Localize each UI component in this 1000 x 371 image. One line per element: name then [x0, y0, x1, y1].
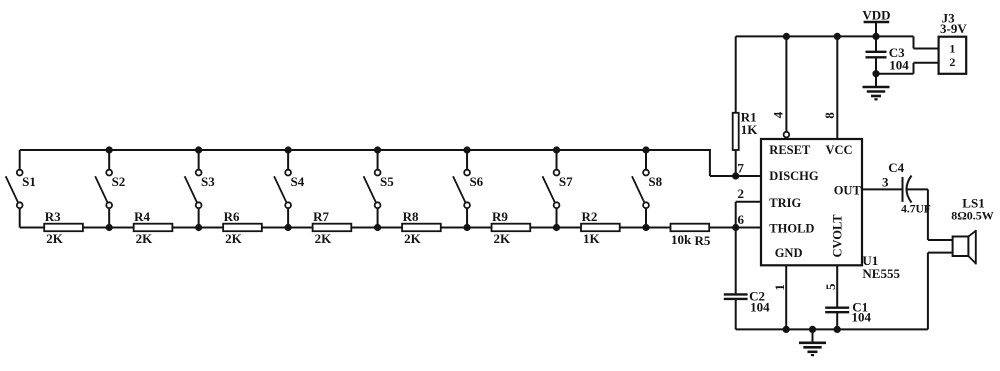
- svg-text:R2: R2: [582, 209, 598, 224]
- svg-text:RESET: RESET: [769, 143, 811, 157]
- svg-text:1K: 1K: [741, 122, 759, 137]
- svg-text:GND: GND: [775, 246, 803, 260]
- svg-text:5: 5: [823, 283, 838, 290]
- svg-text:THOLD: THOLD: [769, 222, 814, 236]
- svg-text:TRIG: TRIG: [769, 196, 801, 210]
- svg-text:R3: R3: [45, 209, 61, 224]
- svg-text:OUT: OUT: [834, 184, 862, 198]
- svg-text:S7: S7: [559, 174, 573, 189]
- svg-text:DISCHG: DISCHG: [769, 169, 819, 183]
- svg-text:104: 104: [750, 299, 770, 314]
- svg-text:2K: 2K: [46, 231, 64, 246]
- svg-text:3-9V: 3-9V: [940, 21, 967, 36]
- svg-text:1: 1: [772, 284, 787, 291]
- svg-text:1: 1: [949, 42, 955, 56]
- svg-text:8Ω0.5W: 8Ω0.5W: [951, 209, 994, 223]
- svg-text:R7: R7: [313, 209, 329, 224]
- svg-text:7: 7: [737, 160, 744, 175]
- svg-text:S4: S4: [291, 174, 305, 189]
- svg-text:S5: S5: [380, 174, 394, 189]
- svg-text:S8: S8: [648, 174, 662, 189]
- svg-text:R6: R6: [224, 209, 240, 224]
- svg-text:4: 4: [771, 111, 786, 118]
- svg-text:VDD: VDD: [862, 8, 890, 23]
- svg-text:C4: C4: [888, 160, 904, 175]
- svg-text:2: 2: [949, 55, 955, 69]
- svg-text:R8: R8: [403, 209, 419, 224]
- svg-text:S6: S6: [469, 174, 483, 189]
- svg-text:4.7UF: 4.7UF: [901, 204, 931, 216]
- svg-text:2K: 2K: [404, 231, 422, 246]
- svg-text:2K: 2K: [315, 231, 333, 246]
- svg-text:104: 104: [852, 310, 872, 325]
- svg-text:2K: 2K: [225, 231, 243, 246]
- svg-text:CVOLT: CVOLT: [831, 214, 845, 258]
- svg-text:2: 2: [738, 186, 745, 201]
- svg-text:VCC: VCC: [826, 143, 853, 157]
- svg-text:R9: R9: [492, 209, 508, 224]
- svg-text:104: 104: [889, 57, 909, 72]
- svg-text:R4: R4: [134, 209, 150, 224]
- svg-text:3: 3: [882, 175, 889, 190]
- svg-text:S1: S1: [22, 174, 36, 189]
- svg-text:6: 6: [738, 212, 745, 227]
- svg-text:1K: 1K: [583, 231, 601, 246]
- svg-text:2K: 2K: [494, 231, 512, 246]
- svg-text:NE555: NE555: [862, 266, 900, 281]
- svg-text:R5: R5: [694, 233, 710, 248]
- svg-text:S2: S2: [112, 174, 126, 189]
- svg-text:S3: S3: [201, 174, 215, 189]
- svg-text:2K: 2K: [136, 231, 154, 246]
- svg-text:10k: 10k: [671, 232, 692, 247]
- svg-text:8: 8: [822, 112, 837, 119]
